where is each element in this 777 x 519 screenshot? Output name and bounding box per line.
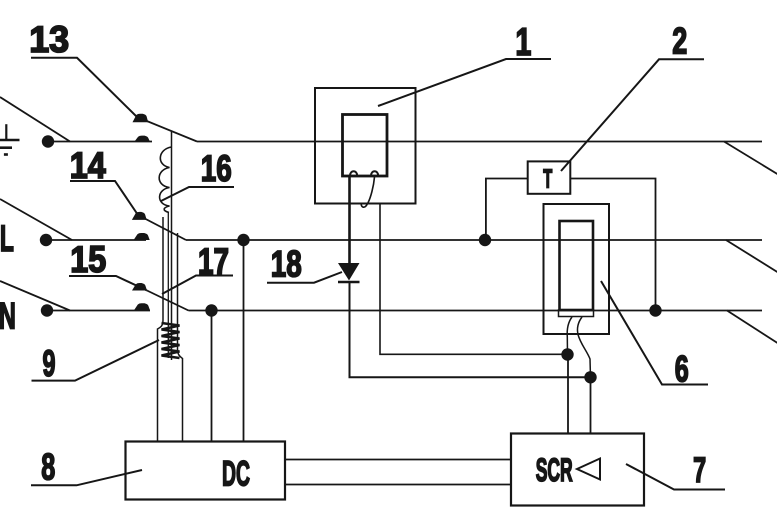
switch 15 contacts (132, 283, 150, 310)
wire DC to SCR upper (285, 459, 511, 461)
winding 17 second conductor (167, 212, 169, 358)
node PE terminal (42, 135, 54, 147)
switch 13 blade (137, 117, 197, 142)
label 17 (162, 241, 233, 294)
label 6 (601, 281, 708, 389)
relay U1 inner box (343, 115, 388, 177)
inductor 9 (spring) (162, 323, 180, 358)
wire PE input diagonal (0, 97, 70, 142)
label 15 (69, 239, 147, 291)
node N terminal (41, 304, 53, 316)
wire L input diagonal (0, 199, 72, 240)
relay U1 outer box (315, 88, 416, 204)
winding 17 right conductor (178, 233, 183, 442)
svg-text:18: 18 (271, 244, 302, 285)
DC box 8 (126, 442, 286, 500)
svg-text:14: 14 (70, 145, 106, 186)
wire PE stub (48, 141, 152, 143)
diode 18 (338, 263, 360, 282)
svg-text:8: 8 (41, 446, 55, 487)
svg-text:L: L (0, 218, 14, 259)
node T-N junction (649, 304, 661, 316)
wire junction B to SCR (590, 377, 592, 433)
svg-text:7: 7 (693, 451, 706, 490)
node T-L junction (479, 234, 491, 246)
wire N bus (189, 310, 763, 312)
wire DC to SCR lower (285, 484, 511, 486)
relay U6 outer box (544, 204, 610, 334)
wire U6 left pin (567, 317, 572, 355)
pin notch left U1 (350, 171, 357, 175)
relay U6 inner box (560, 221, 594, 310)
wire junction A to SCR (567, 355, 569, 434)
wire N stub (47, 310, 150, 312)
relay U6 base flange (559, 310, 594, 317)
ground (0, 124, 20, 154)
inductor 16 vertical feed (171, 132, 173, 361)
wire U6 right pin (577, 317, 590, 377)
wire U1 left pin down (348, 176, 351, 263)
inductor 16 (159, 147, 171, 213)
SCR box 7 (511, 434, 644, 506)
svg-text:SCR: SCR (536, 452, 573, 488)
label 1 (378, 21, 551, 106)
label 18 (267, 244, 342, 285)
svg-text:6: 6 (675, 348, 689, 389)
label 9 (32, 340, 160, 384)
svg-text:T: T (543, 164, 552, 194)
wire PE bus (197, 141, 762, 143)
wire N right exit (727, 311, 777, 345)
switch 15 blade (147, 291, 189, 311)
wire L stub (46, 239, 146, 241)
switch 14 contacts (132, 212, 150, 240)
wire diode to gate bus (350, 282, 591, 377)
label 16 (161, 148, 234, 201)
wire L right exit (726, 240, 777, 273)
wire N input diagonal (0, 281, 70, 311)
wire T right to N (570, 179, 655, 311)
label 8 (31, 446, 142, 487)
svg-text:15: 15 (70, 239, 106, 280)
label 2 (561, 21, 704, 171)
node L junction (237, 234, 249, 246)
svg-text:13: 13 (29, 19, 69, 60)
svg-text:N: N (0, 295, 16, 336)
svg-text:2: 2 (672, 21, 687, 62)
wire L bus (186, 239, 762, 241)
svg-text:16: 16 (201, 148, 232, 189)
wire N junction to DC (211, 311, 213, 442)
wire L junction to DC (243, 240, 245, 442)
label 13 (29, 19, 137, 117)
svg-text:1: 1 (515, 21, 531, 64)
node L terminal (40, 234, 52, 246)
svg-text:DC: DC (222, 455, 250, 494)
transformer T box 2 (528, 161, 571, 193)
wire PE right exit (724, 142, 777, 176)
wire T left to L (486, 179, 528, 241)
winding 17 left conductor (158, 217, 164, 442)
switch 14 blade (138, 215, 186, 240)
node gate junction A (561, 348, 573, 360)
label 7 (626, 451, 725, 490)
node gate junction B (584, 371, 596, 383)
label 14 (70, 145, 138, 215)
switch 13 contacts (133, 114, 151, 142)
node N junction (205, 304, 217, 316)
wire U1 right pin drop (380, 204, 568, 354)
svg-text:9: 9 (43, 343, 56, 384)
SCR triangle (577, 459, 600, 480)
pin notch right U1 (371, 171, 378, 175)
wire U1 right pin curve (361, 177, 374, 207)
